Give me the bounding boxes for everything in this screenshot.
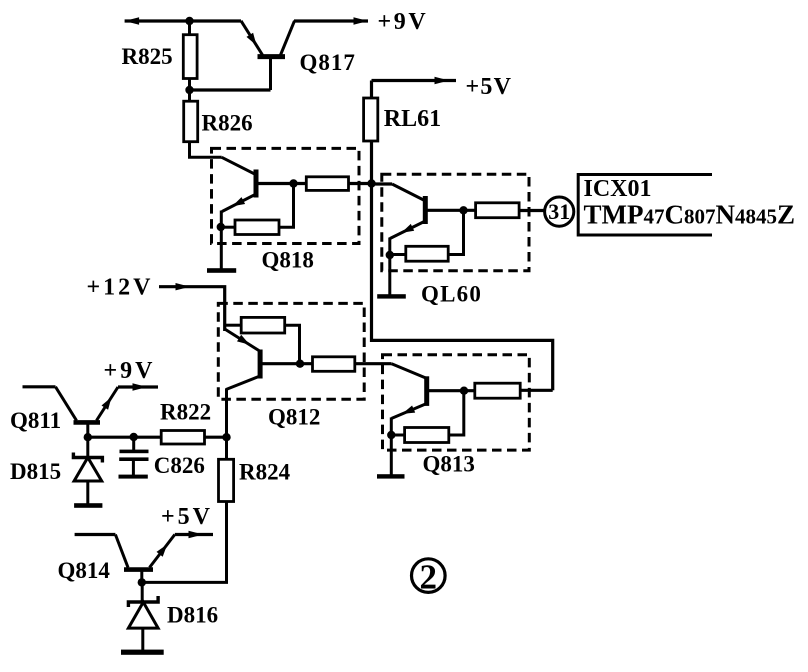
transistor Q813 emitter diagonal (392, 404, 427, 419)
ground D815 (74, 503, 102, 508)
wire Q818 output to RL61 node (349, 182, 373, 185)
wire Q813 b-e resistor right lead (449, 391, 464, 435)
svg-text:D816: D816 (167, 602, 218, 627)
transistor Q812 emitter diagonal (225, 329, 261, 352)
resistor Q812 output (internal) (313, 357, 355, 372)
transistor Q817 emitter arrow (247, 33, 257, 46)
resistor Q818 output (internal) (306, 177, 348, 191)
wire QL60 base line to node (425, 209, 475, 212)
wire Q811 collector rail (23, 385, 56, 388)
transistor Q818 emitter arrow (232, 197, 245, 206)
node Q813 emitter junction (387, 431, 395, 439)
wire base feed horizontal (190, 88, 271, 91)
node Q818 internal junction (289, 179, 297, 187)
wire QL60 emitter to ground (388, 255, 391, 295)
wire R824 bottom lead (142, 502, 227, 583)
resistor Q813 base-emitter (internal) (405, 428, 449, 443)
wire QL60 b-e resistor right lead (448, 210, 463, 254)
svg-text:C826: C826 (154, 453, 205, 478)
wire base net horizontal (88, 436, 161, 439)
svg-text:+5V: +5V (161, 504, 213, 530)
wire RL61 vertical net (372, 81, 553, 391)
wire Q813 output to link (520, 389, 553, 392)
transistor Q812 collector diagonal (226, 376, 260, 390)
wire QL60 output to pin 31 (519, 209, 545, 212)
digital transistor QL60 dashed box (382, 174, 529, 271)
wire Q813 emitter vertical (390, 417, 393, 435)
wire R825 top lead (188, 21, 191, 35)
ground D816 (121, 650, 164, 655)
wire D815 bottom lead (86, 481, 89, 504)
pin 31 circle (545, 197, 574, 226)
wire R825 bottom lead (188, 79, 191, 91)
wire Q818 input diagonal (222, 157, 257, 175)
svg-text:31: 31 (548, 199, 570, 224)
wire Q812 collector vertical (225, 389, 228, 460)
transistor QL60 base bar (423, 196, 428, 224)
wire top +9V rail left segment (125, 19, 241, 22)
transistor Q813 base bar (424, 376, 429, 406)
svg-text:R825: R825 (122, 44, 173, 69)
svg-text:Q813: Q813 (423, 452, 475, 477)
wire R826 to Q818 input (190, 142, 222, 158)
node RL61 / Q818 out / QL60 in junction (367, 179, 375, 187)
wire Q814 base lead (140, 572, 143, 583)
node R822 / R824 / Q812 collector junction (222, 433, 230, 441)
node junction R825/R826/Q817 base (185, 86, 193, 94)
wire Q818 base line to node (256, 182, 306, 185)
transistor Q814 collector diagonal (115, 535, 128, 568)
resistor Q818 base-emitter (internal) (235, 220, 279, 235)
node Q818 emitter junction (217, 223, 225, 231)
wire QL60 b-e resistor left lead (390, 253, 406, 256)
svg-text:Q817: Q817 (300, 50, 356, 75)
digital transistor Q813 dashed box (383, 355, 530, 450)
resistor Q812 base-emitter (internal) (241, 317, 285, 333)
arrow +12V (176, 283, 191, 290)
resistor QL60 output (internal) (476, 203, 519, 218)
svg-text:+5V: +5V (466, 74, 513, 100)
resistor R825 (183, 35, 197, 79)
svg-text:+9V: +9V (104, 358, 156, 384)
svg-text:R822: R822 (160, 400, 211, 425)
resistor RL61 (364, 98, 378, 141)
node junction top rail / R825 (185, 17, 193, 25)
wire Q818 b-e resistor right lead (279, 184, 294, 228)
transistor Q811 base bar (74, 420, 101, 425)
svg-text:+9V: +9V (378, 9, 429, 35)
svg-text:D815: D815 (10, 459, 61, 484)
wire +12V feed (159, 287, 225, 331)
wire Q813 input diagonal (392, 364, 427, 379)
transistor Q818 base bar (254, 170, 259, 198)
svg-text:TMP47C807N4845Z: TMP47C807N4845Z (584, 200, 796, 230)
resistor R826 (184, 101, 198, 142)
wire R822 right lead (205, 436, 227, 439)
wire Q818 b-e resistor left lead (221, 226, 235, 229)
transistor Q817 base bar (258, 54, 286, 59)
wire C826 top lead (132, 437, 135, 450)
wire QL60 emitter vertical (388, 238, 391, 256)
wire Q812 b-e resistor right lead (285, 325, 300, 364)
page number circle 2 (412, 559, 446, 593)
wire Q818 emitter to ground (220, 227, 223, 269)
svg-text:ICX01: ICX01 (584, 176, 652, 202)
transistor Q817 emitter diagonal (241, 21, 263, 55)
wire top rail right segment (294, 19, 368, 22)
wire +5V feed (372, 79, 457, 82)
transistor Q813 emitter arrow (402, 406, 415, 414)
node QL60 internal junction (459, 206, 467, 214)
capacitor C826 top plate (120, 450, 149, 454)
svg-text:Q818: Q818 (262, 248, 314, 273)
node QL60 emitter junction (386, 251, 394, 259)
svg-text:+12V: +12V (87, 275, 154, 301)
node Q813 internal junction (460, 387, 468, 395)
transistor Q811 collector diagonal (56, 387, 77, 421)
transistor Q814 emitter diagonal (150, 535, 175, 568)
arrow to +9V (top) (354, 17, 369, 24)
wire Q814 emitter to +5V (175, 533, 213, 536)
wire Q813 b-e resistor left lead (391, 434, 404, 437)
node C826 tap junction (130, 433, 138, 441)
wire Q813 base line to node (427, 389, 475, 392)
arrow to +5V (top) (435, 77, 450, 84)
digital transistor Q818 dashed box (212, 148, 360, 243)
svg-text:R824: R824 (239, 460, 291, 485)
diode D815 zener cathode bar (73, 453, 102, 463)
node Q814 base / D816 / R824 junction (138, 578, 146, 586)
svg-text:Q812: Q812 (268, 405, 320, 430)
arrow +9V (Q811) (133, 383, 148, 390)
transistor Q814 emitter arrow (157, 544, 168, 556)
transistor Q817 collector diagonal (281, 21, 295, 55)
wire Q812 b-e resistor left lead (226, 324, 242, 327)
wire QL60 input diagonal (392, 184, 426, 201)
node Q812 internal junction (296, 360, 304, 368)
wire Q811 base lead (86, 424, 89, 437)
svg-text:Q811: Q811 (10, 408, 61, 433)
wire D815 top lead (86, 437, 89, 457)
resistor QL60 base-emitter (internal) (406, 246, 448, 261)
svg-text:2: 2 (420, 558, 438, 597)
transistor Q818 emitter diagonal (222, 194, 256, 212)
diode D816 zener cathode bar (128, 596, 158, 607)
transistor QL60 emitter arrow (401, 224, 414, 233)
svg-text:RL61: RL61 (384, 106, 441, 132)
transistor Q814 base bar (124, 567, 153, 572)
resistor R824 (219, 459, 234, 501)
diode D815 triangle (74, 458, 102, 482)
capacitor C826 bottom plate (119, 457, 148, 461)
wire QL60 input horizontal (372, 182, 393, 185)
svg-text:R826: R826 (202, 111, 253, 136)
IC box ICX01 outline (578, 175, 712, 236)
wire Q813 emitter to ground (390, 435, 393, 475)
diode D816 triangle (128, 602, 158, 628)
svg-text:Q814: Q814 (58, 558, 111, 583)
wire Q812 output to Q813 input (355, 362, 392, 365)
transistor Q811 emitter arrow (102, 397, 112, 410)
transistor Q812 emitter arrow (237, 335, 250, 345)
wire R826 top lead (188, 90, 191, 101)
ground Q818 (207, 268, 236, 273)
wire Q811 emitter to +9V (118, 385, 158, 388)
arrow left off-page (top rail) (125, 17, 140, 24)
transistor Q811 emitter diagonal (97, 387, 119, 421)
wire C826 bottom lead (132, 461, 135, 475)
node Q811 base / D815 / R822 junction (84, 433, 92, 441)
digital transistor Q812 dashed box (218, 303, 364, 399)
ground Q813 (377, 474, 405, 478)
transistor Q812 base bar (258, 350, 263, 379)
ground QL60 (377, 294, 406, 298)
wire D816 bottom lead (141, 628, 144, 650)
wire Q817 base lead vertical (269, 57, 272, 90)
resistor Q813 output (internal) (475, 383, 520, 398)
ground C826 (119, 475, 148, 479)
wire Q818 emitter vertical (220, 211, 223, 228)
wire D816 top lead (141, 582, 144, 602)
wire Q814 collector rail (75, 533, 116, 536)
arrow +5V (Q814) (189, 531, 204, 538)
transistor QL60 emitter diagonal (390, 221, 425, 239)
resistor R822 (161, 431, 204, 445)
svg-text:QL60: QL60 (421, 282, 482, 307)
wire Q812 base line to node (260, 362, 312, 365)
